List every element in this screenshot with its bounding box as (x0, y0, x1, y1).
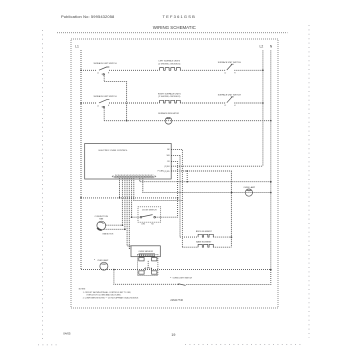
wire connector drop 8 to oven lamp line (143, 178, 271, 192)
svg-text:Publication No: 5995432058: Publication No: 5995432058 (61, 14, 115, 19)
wire EOC pin5 to element vertical (171, 171, 231, 247)
node dot row3 N (270, 120, 272, 122)
wire row1 mid (109, 69, 160, 71)
switch surface unit switch 1 (93, 62, 117, 76)
perforation dotted line right (308, 25, 310, 338)
wire EOC pin4 to L2 (171, 165, 263, 167)
svg-text:P: P (102, 107, 103, 109)
svg-text:L1: L1 (97, 73, 99, 75)
header dashed rule (57, 32, 288, 34)
svg-text:L1: L1 (97, 105, 99, 107)
wire connector drop 2 (fan upper) (121, 178, 123, 225)
wire pilot drop switch1 (104, 74, 126, 121)
node dot L2 row2 (262, 102, 264, 104)
switch surface unit switch 4 (right row2) (218, 94, 242, 107)
wire L1 bus (80, 50, 82, 270)
svg-text:(2 SHOWN, 4 MODELS): (2 SHOWN, 4 MODELS) (158, 96, 180, 98)
svg-text:OVEN SENSOR: OVEN SENSOR (138, 251, 153, 253)
node dot neutral line at N (270, 181, 272, 183)
wire EOC pin2 to broil drop (171, 155, 180, 237)
wire N bus (270, 51, 272, 270)
svg-text:FAN: FAN (99, 218, 103, 221)
wire connector drop 3 (fan lower) (124, 178, 126, 229)
svg-text:SURFACE UNIT SWITCH: SURFACE UNIT SWITCH (93, 95, 117, 98)
perforation dotted bottom-right (185, 343, 302, 345)
svg-text:L2: L2 (260, 45, 264, 49)
switch surface unit switch 3 (93, 95, 117, 109)
svg-text:TEF361GSB: TEF361GSB (163, 14, 196, 19)
svg-text:DOOR SWITCH: DOOR SWITCH (142, 210, 157, 212)
node dot broil right (231, 236, 233, 238)
svg-text:L2: L2 (224, 72, 226, 74)
wire bottom lamp line (81, 269, 271, 271)
wire EOC pin3 to door switch drop (171, 161, 177, 217)
wire pin5 branch to neutral line (186, 171, 188, 182)
node dot lamp line at element vertical (231, 192, 233, 194)
svg-text:216417746: 216417746 (170, 299, 183, 302)
schematic border frame (71, 39, 278, 308)
oven sensor box (131, 246, 160, 257)
wire connector drop 6 (door switch feed) (131, 178, 133, 217)
notes block (79, 289, 139, 300)
heating element right surface units row2 (158, 92, 181, 103)
svg-text:OVEN DOOR CLOSED AND UNLOCKED.: OVEN DOOR CLOSED AND UNLOCKED. (86, 294, 121, 297)
heating element broil (180, 231, 231, 237)
wire connector drop 6b (latch line) (134, 178, 183, 200)
svg-text:BROIL ELEMENT: BROIL ELEMENT (196, 231, 213, 233)
wire row2 mid (109, 102, 160, 104)
wire connector drop 1 (119, 178, 121, 198)
wire row3 indicator line (104, 120, 271, 122)
svg-text:2. COMPONENTS NOTED "*" DO NO: 2. COMPONENTS NOTED "*" DO NOT APPEAR ON… (83, 296, 139, 299)
lamp oven lamp (left) (94, 258, 109, 270)
wire row2 left (81, 102, 97, 104)
node dot bottom line at N (270, 269, 272, 271)
svg-text:L2: L2 (224, 105, 226, 107)
svg-text:OVEN LIGHT SWITCH: OVEN LIGHT SWITCH (173, 278, 193, 280)
lamp oven lamp (right) (243, 186, 255, 196)
switch oven light switch line (114, 270, 271, 286)
node dot L1 feed (80, 197, 82, 199)
svg-text:04/05: 04/05 (63, 331, 71, 335)
wire pilot drop switch3 (103, 106, 105, 120)
node dot L1 row1 (80, 69, 82, 71)
wire L2 bus (262, 51, 264, 167)
svg-text:ELECTRIC OVEN CONTROL: ELECTRIC OVEN CONTROL (99, 150, 129, 152)
wire row1 right (234, 69, 263, 71)
motor convection fan (95, 216, 126, 236)
wire EOC pin1 to bake drop (171, 149, 182, 247)
svg-text:WIRING SCHEMATIC: WIRING SCHEMATIC (153, 25, 196, 30)
svg-text:(2) RD: (2) RD (164, 171, 170, 173)
svg-text:SURFACE INDICATOR: SURFACE INDICATOR (158, 112, 179, 115)
svg-text:SURFACE UNIT SWITCH: SURFACE UNIT SWITCH (218, 94, 242, 97)
node dot lamp line at N (270, 192, 272, 194)
svg-text:FAN MOTOR: FAN MOTOR (103, 233, 114, 236)
svg-text:BAKE ELEMENT: BAKE ELEMENT (196, 241, 212, 244)
node dot bottom line at lamp drop (113, 269, 115, 271)
node dot L1 row2 (80, 102, 82, 104)
svg-text:*: * (170, 276, 171, 280)
perforation dotted line left (42, 30, 44, 341)
node dot L2 row1 (262, 69, 264, 71)
wire row2 right (234, 102, 263, 104)
svg-text:RIGHT SURFACE UNITS: RIGHT SURFACE UNITS (158, 92, 181, 95)
wire row1 right mid (180, 69, 226, 71)
svg-text:19: 19 (171, 333, 175, 337)
svg-text:SURFACE UNIT SWITCH: SURFACE UNIT SWITCH (93, 62, 117, 65)
wire door switch to pin3 vertical (161, 216, 178, 218)
heating element bake (182, 241, 231, 248)
svg-text:NOTES:: NOTES: (79, 289, 86, 291)
svg-text:(2) BU: (2) BU (164, 166, 170, 168)
sensor plug dashed box (138, 254, 158, 275)
heating element left surface units row1 (158, 60, 180, 71)
svg-text:L1: L1 (75, 45, 79, 49)
svg-text:OVEN LAMP: OVEN LAMP (97, 259, 109, 262)
wire L1 feed line (81, 197, 178, 199)
door switch box (132, 207, 161, 226)
wire connector drop 5 (sensor left b) (129, 178, 131, 248)
wire connector drop 7 to neutral line (140, 178, 271, 181)
switch surface unit switch 2 (right row1) (218, 61, 242, 74)
node dot L1 feed / pin3 vertical (177, 197, 179, 199)
svg-text:(2 SHOWN, 4 MODELS): (2 SHOWN, 4 MODELS) (158, 63, 180, 65)
svg-text:SURFACE UNIT SWITCH: SURFACE UNIT SWITCH (218, 61, 242, 64)
EOC right pin labels (164, 149, 170, 173)
EOC electric oven control box (85, 144, 172, 180)
wire row1 left (81, 69, 97, 71)
wire connector drop 4 (sensor left a) (127, 178, 131, 246)
svg-text:OVEN LAMP: OVEN LAMP (243, 186, 255, 189)
node dot row3 junction (126, 120, 128, 122)
svg-text:P: P (102, 74, 103, 76)
perforation dotted bottom-left (38, 344, 57, 346)
wire row2 right mid (180, 102, 226, 104)
lamp surface indicator (158, 112, 179, 124)
svg-text:LEFT SURFACE UNITS: LEFT SURFACE UNITS (159, 60, 181, 63)
EOC bottom connector strip (112, 174, 157, 178)
svg-text:P1 (BK): P1 (BK) (158, 170, 165, 172)
